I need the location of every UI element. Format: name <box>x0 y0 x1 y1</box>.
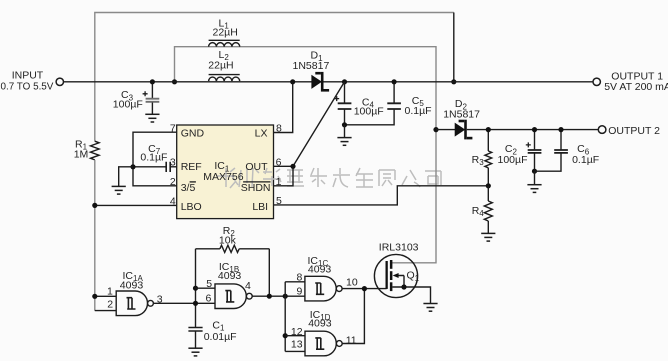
capacitor C3 <box>146 82 160 114</box>
plus C4 <box>334 96 339 101</box>
resistor R2 loop <box>196 245 270 296</box>
wire: IC1C/IC1D input bracket <box>284 282 286 352</box>
IC pin numbers <box>170 122 282 207</box>
svg-text:0.7 TO 5.5V: 0.7 TO 5.5V <box>1 81 54 92</box>
resistor R3 <box>485 130 492 186</box>
svg-text:2: 2 <box>170 176 176 188</box>
capacitor C6 <box>554 130 568 153</box>
svg-text:5: 5 <box>276 195 282 207</box>
transistor Q1 IRL3103 <box>374 254 430 303</box>
svg-text:REF: REF <box>181 161 202 173</box>
svg-text:OUTPUT 2: OUTPUT 2 <box>608 125 660 137</box>
svg-text:0.1µF: 0.1µF <box>572 154 599 166</box>
node: REF junction <box>130 164 135 169</box>
node: C3 tap <box>150 79 155 84</box>
wire: LBI pin 5 run with jog <box>274 186 489 205</box>
capacitor C2 <box>528 130 542 172</box>
capacitor C1 <box>188 328 202 348</box>
svg-text:100µF: 100µF <box>498 154 528 166</box>
node: source/body tie <box>401 284 406 289</box>
node: pin5 feedback junction <box>193 286 198 291</box>
wire: D2 anode stub <box>436 129 455 131</box>
wire: C4 gnd stub <box>344 125 346 137</box>
diode D1 1N5817 <box>312 72 329 92</box>
input terminal <box>56 78 63 85</box>
wire: IC1B pin 5 stub <box>196 287 216 289</box>
output1 terminal <box>593 78 600 85</box>
capacitor C5 <box>387 82 401 109</box>
svg-text:3/5: 3/5 <box>181 182 196 194</box>
svg-text:1: 1 <box>107 285 113 297</box>
wire: main input line <box>64 81 312 83</box>
svg-text:22µH: 22µH <box>213 27 238 39</box>
wire: REF ground tap <box>119 167 133 186</box>
svg-text:4093: 4093 <box>308 317 332 329</box>
ground R4 <box>481 233 495 241</box>
svg-text:0.1µF: 0.1µF <box>405 105 432 117</box>
svg-text:MAX756: MAX756 <box>203 171 243 183</box>
svg-text:12: 12 <box>291 326 303 338</box>
node: C6 top <box>558 127 563 132</box>
wire: OUT pin 6 stub <box>274 165 294 167</box>
svg-text:5: 5 <box>206 278 212 290</box>
node: D2 tap on gray drain line <box>433 127 438 132</box>
wire: gray L1 loop left + top <box>175 47 437 263</box>
svg-text:4: 4 <box>245 280 251 292</box>
svg-text:100µF: 100µF <box>113 99 143 111</box>
node: C2 bottom <box>532 169 537 174</box>
inductor L1 <box>209 40 240 46</box>
capacitor C7 on REF <box>133 162 177 172</box>
svg-text:10: 10 <box>346 277 358 289</box>
node: LBO / R1 <box>92 203 97 208</box>
node: rail/output1 junction <box>451 79 456 84</box>
diode D2 1N5817 <box>455 120 472 140</box>
wire: LBO pin 4 <box>95 204 177 206</box>
svg-text:4093: 4093 <box>120 279 144 291</box>
svg-text:LBI: LBI <box>252 201 268 213</box>
ground C2 <box>527 185 541 193</box>
wire: IC1A input pin 1 stub <box>95 295 116 297</box>
svg-text:22µH: 22µH <box>208 60 233 72</box>
ground C3 <box>145 114 159 122</box>
node: IC1C bracket junction <box>283 294 288 299</box>
node: C2 top <box>532 127 537 132</box>
svg-text:LX: LX <box>255 127 268 139</box>
wire: IC1B output to IC1C pin9 <box>252 295 305 297</box>
svg-text:8: 8 <box>276 122 282 134</box>
wire: IC1D pin 13 stub <box>285 350 305 352</box>
wire: IC1A input pin 2 stub <box>95 310 116 312</box>
watermark <box>217 168 441 188</box>
svg-text:0.1µF: 0.1µF <box>140 151 167 163</box>
resistor R4 <box>484 186 492 233</box>
node: R3/R4/LBI junction <box>486 183 491 188</box>
wire: output2 line <box>467 129 599 131</box>
ground C4 <box>337 138 351 146</box>
svg-text:9: 9 <box>297 286 303 298</box>
svg-text:OUT: OUT <box>245 161 268 173</box>
svg-text:2: 2 <box>107 298 113 310</box>
svg-text:1N5817: 1N5817 <box>293 60 330 72</box>
wire: LX pin 8 to switch node <box>274 82 293 133</box>
svg-text:0.01µF: 0.01µF <box>204 331 237 343</box>
wire: top rail drop to output1 line <box>453 13 455 82</box>
node: gate drive junction <box>362 286 367 291</box>
node: IC1D pin12 junction <box>283 333 288 338</box>
svg-text:INPUT: INPUT <box>12 70 44 82</box>
svg-text:IRL3103: IRL3103 <box>379 241 419 253</box>
node: R3 top <box>486 127 491 132</box>
svg-text:5V AT 200 mA: 5V AT 200 mA <box>604 81 668 93</box>
node: OUT junction <box>290 164 295 169</box>
overline SHDN <box>243 181 270 183</box>
node: L1 loop at input line <box>172 79 177 84</box>
wire: diagonal OUT to D1 junction <box>293 82 345 167</box>
svg-text:1M: 1M <box>74 149 89 161</box>
gate IC1B 4093 <box>215 284 252 309</box>
wire: SHDN pin 1 tie to OUT <box>274 166 294 186</box>
wire: IC1C pin 8 stub <box>285 281 305 283</box>
wire: IC1D output up to gate node <box>342 289 364 344</box>
node: pin1 tie <box>92 294 97 299</box>
wire: GND pin7 / pin2 bracket <box>133 132 177 186</box>
svg-text:6: 6 <box>205 292 211 304</box>
wire: C1 / feedback vertical <box>195 249 197 327</box>
capacitor C4 <box>338 82 352 125</box>
node: D1 output junction <box>342 79 347 84</box>
wire: output1 line after D1 <box>324 81 594 83</box>
wire: C4-C5 bottom rail <box>345 110 395 125</box>
svg-text:6: 6 <box>276 156 282 168</box>
gate IC1C 4093 <box>305 276 342 301</box>
svg-text:SHDN: SHDN <box>241 182 271 194</box>
wire: gray output1 top rail <box>95 13 454 142</box>
svg-text:LBO: LBO <box>181 201 202 213</box>
wire: gray R1 lower run to gates <box>94 160 96 311</box>
svg-text:11: 11 <box>346 334 357 346</box>
gate IC1D 4093 <box>305 331 342 356</box>
wire: C2 gnd stub <box>534 171 536 184</box>
node: pin6 / C1 junction <box>193 301 198 306</box>
svg-text:1: 1 <box>276 176 282 188</box>
plus C2 <box>526 142 531 147</box>
svg-text:4093: 4093 <box>308 264 332 276</box>
node: C5 tap <box>392 79 397 84</box>
wire: C2-C6 bottom rail <box>535 154 562 172</box>
ground Q1 source <box>423 304 437 312</box>
svg-text:GND: GND <box>181 127 205 139</box>
IC U1 pin names <box>181 127 271 213</box>
node: R2 right junction <box>267 294 272 299</box>
svg-text:10k: 10k <box>219 234 237 246</box>
svg-text:100µF: 100µF <box>354 106 384 118</box>
wire: IC1C output to Q1 gate <box>342 288 387 290</box>
inductor L2 <box>209 75 240 82</box>
wire: IC1A output to IC1B pin6 <box>153 302 215 304</box>
node: C4 bottom <box>342 122 347 127</box>
node: LX tap <box>290 79 295 84</box>
IC U1 MAX756 body <box>177 125 274 219</box>
svg-text:13: 13 <box>291 339 303 351</box>
wire: IC1D pin 12 stub <box>285 335 305 337</box>
plus C3 <box>143 91 148 96</box>
svg-text:7: 7 <box>170 122 176 134</box>
resistor R1 <box>91 141 100 160</box>
overline 5 of 3/5 <box>190 181 196 183</box>
svg-text:8: 8 <box>297 272 303 284</box>
gate IC1A 4093 <box>116 291 153 316</box>
output2 terminal <box>598 126 606 134</box>
ground REF <box>112 186 126 194</box>
ground C1 <box>188 348 202 356</box>
svg-text:4: 4 <box>170 196 176 208</box>
svg-text:3: 3 <box>170 156 176 168</box>
svg-text:1N5817: 1N5817 <box>443 108 480 120</box>
svg-text:4093: 4093 <box>218 270 242 282</box>
